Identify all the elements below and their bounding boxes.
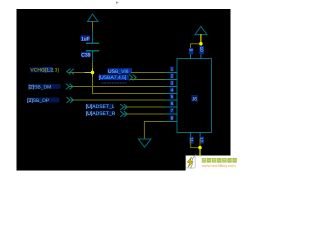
svg-text:USB_VI6: USB_VI6 bbox=[108, 69, 129, 75]
wire pin6 (ADSET_L) bbox=[124, 106, 166, 108]
label C39 bbox=[81, 52, 91, 59]
schematic black canvas bbox=[17, 9, 231, 171]
net label ADSET_L bbox=[86, 104, 115, 110]
node A dot repaint bbox=[91, 71, 94, 74]
port chevron >> (ADSET_R) bbox=[121, 111, 128, 116]
node C dot repaint bbox=[198, 146, 201, 149]
svg-text:[U]ADSET_L: [U]ADSET_L bbox=[86, 104, 115, 110]
net label line2 [USBA7,4,5] bbox=[99, 75, 129, 82]
wire pin4 (from node A elbow) bbox=[93, 93, 167, 95]
pin 10 stub (top) bbox=[200, 53, 202, 59]
pin number 9 bbox=[189, 48, 194, 54]
capacitor C39 top lead bbox=[92, 30, 94, 43]
watermark logo bbox=[186, 155, 196, 169]
net label ADSET_R bbox=[86, 111, 116, 117]
ground symbol bbox=[138, 139, 151, 147]
net label line1 (USB_VI6) bbox=[108, 68, 133, 75]
designator J6 bbox=[191, 95, 198, 103]
svg-text:[2]SB_DM: [2]SB_DM bbox=[29, 84, 52, 90]
capacitor C39 bottom lead bbox=[92, 51, 94, 64]
port chevron >> (ADSET_L) bbox=[121, 104, 128, 109]
svg-text:11: 11 bbox=[189, 137, 194, 142]
svg-text:[USBA7,4,5]: [USBA7,4,5] bbox=[99, 75, 127, 81]
wire node B to pin 10 bbox=[200, 44, 202, 54]
port chevron >> (USB_DP) bbox=[67, 97, 74, 102]
watermark text line 1 bbox=[202, 158, 237, 163]
port chevron << (VCHG) bbox=[67, 69, 74, 74]
power symbol P1 (top left, VCC) bbox=[88, 14, 99, 22]
svg-text:10: 10 bbox=[199, 47, 204, 53]
node B dot repaint bbox=[199, 42, 202, 45]
svg-text:1uF: 1uF bbox=[81, 36, 90, 42]
pin numbers 1-8 bbox=[170, 67, 174, 121]
cursor speck on top margin bbox=[116, 1, 119, 4]
wire shield pins to node C bbox=[191, 139, 200, 148]
net label USB_DM bbox=[28, 84, 61, 90]
wire pin7 (ADSET_R) bbox=[124, 113, 166, 115]
svg-text:C39: C39 bbox=[81, 53, 90, 59]
svg-text:[2]SB_DP: [2]SB_DP bbox=[27, 98, 50, 104]
net label VCHG[1,2,3] bbox=[30, 67, 60, 74]
wire pin3 (USB_DM) bbox=[69, 86, 166, 88]
wire cap to node A bbox=[92, 64, 94, 70]
wire node B to pin 9 bbox=[191, 44, 201, 54]
svg-text:9: 9 bbox=[189, 49, 194, 52]
wire vertical from node A down to pin4 row bbox=[92, 73, 94, 94]
svg-text:www.worldbuy.com: www.worldbuy.com bbox=[202, 163, 237, 168]
power symbol P2 (above connector) bbox=[195, 27, 207, 35]
wire power P2 stem (selected) bbox=[200, 35, 202, 44]
wire from power P1 to C39 bbox=[92, 22, 94, 31]
wire pin2 bbox=[131, 79, 166, 81]
wire node C down (selected) bbox=[199, 148, 201, 156]
label 1uF bbox=[81, 36, 91, 43]
port chevron >> (label2) bbox=[129, 75, 136, 80]
node junction dot B bbox=[199, 42, 202, 45]
pin 9 stub (top) bbox=[190, 53, 192, 59]
wire pin8 to ground bbox=[144, 122, 166, 140]
pin number 11 bbox=[189, 137, 194, 144]
node junction dot A bbox=[91, 71, 94, 74]
wire VCHG (selected, bright toward node) bbox=[70, 72, 86, 74]
pin 12 stub (bottom) bbox=[199, 133, 201, 140]
port chevron >> (USB_DM) bbox=[66, 84, 73, 89]
pin 11 stub (bottom) bbox=[190, 133, 192, 140]
pin number 12 bbox=[199, 137, 204, 144]
capacitor C39 plates bbox=[87, 42, 99, 44]
svg-text:VCHG[1,2,3]: VCHG[1,2,3] bbox=[30, 68, 59, 74]
wire pin5 (USB_DP) bbox=[70, 99, 166, 101]
connector J6 body bbox=[177, 59, 212, 133]
pin stubs 1-8 bbox=[166, 73, 178, 122]
watermark white block bbox=[186, 156, 240, 173]
svg-text:[U]ADSET_R: [U]ADSET_R bbox=[86, 111, 116, 117]
page background bbox=[0, 0, 240, 172]
wire pin1 bbox=[132, 72, 167, 74]
net label USB_DP bbox=[27, 98, 60, 104]
node junction dot C bbox=[198, 146, 201, 149]
pin number 10 bbox=[199, 46, 204, 54]
svg-text:J6: J6 bbox=[192, 97, 198, 103]
selection underline dots below label2 bbox=[102, 82, 126, 84]
